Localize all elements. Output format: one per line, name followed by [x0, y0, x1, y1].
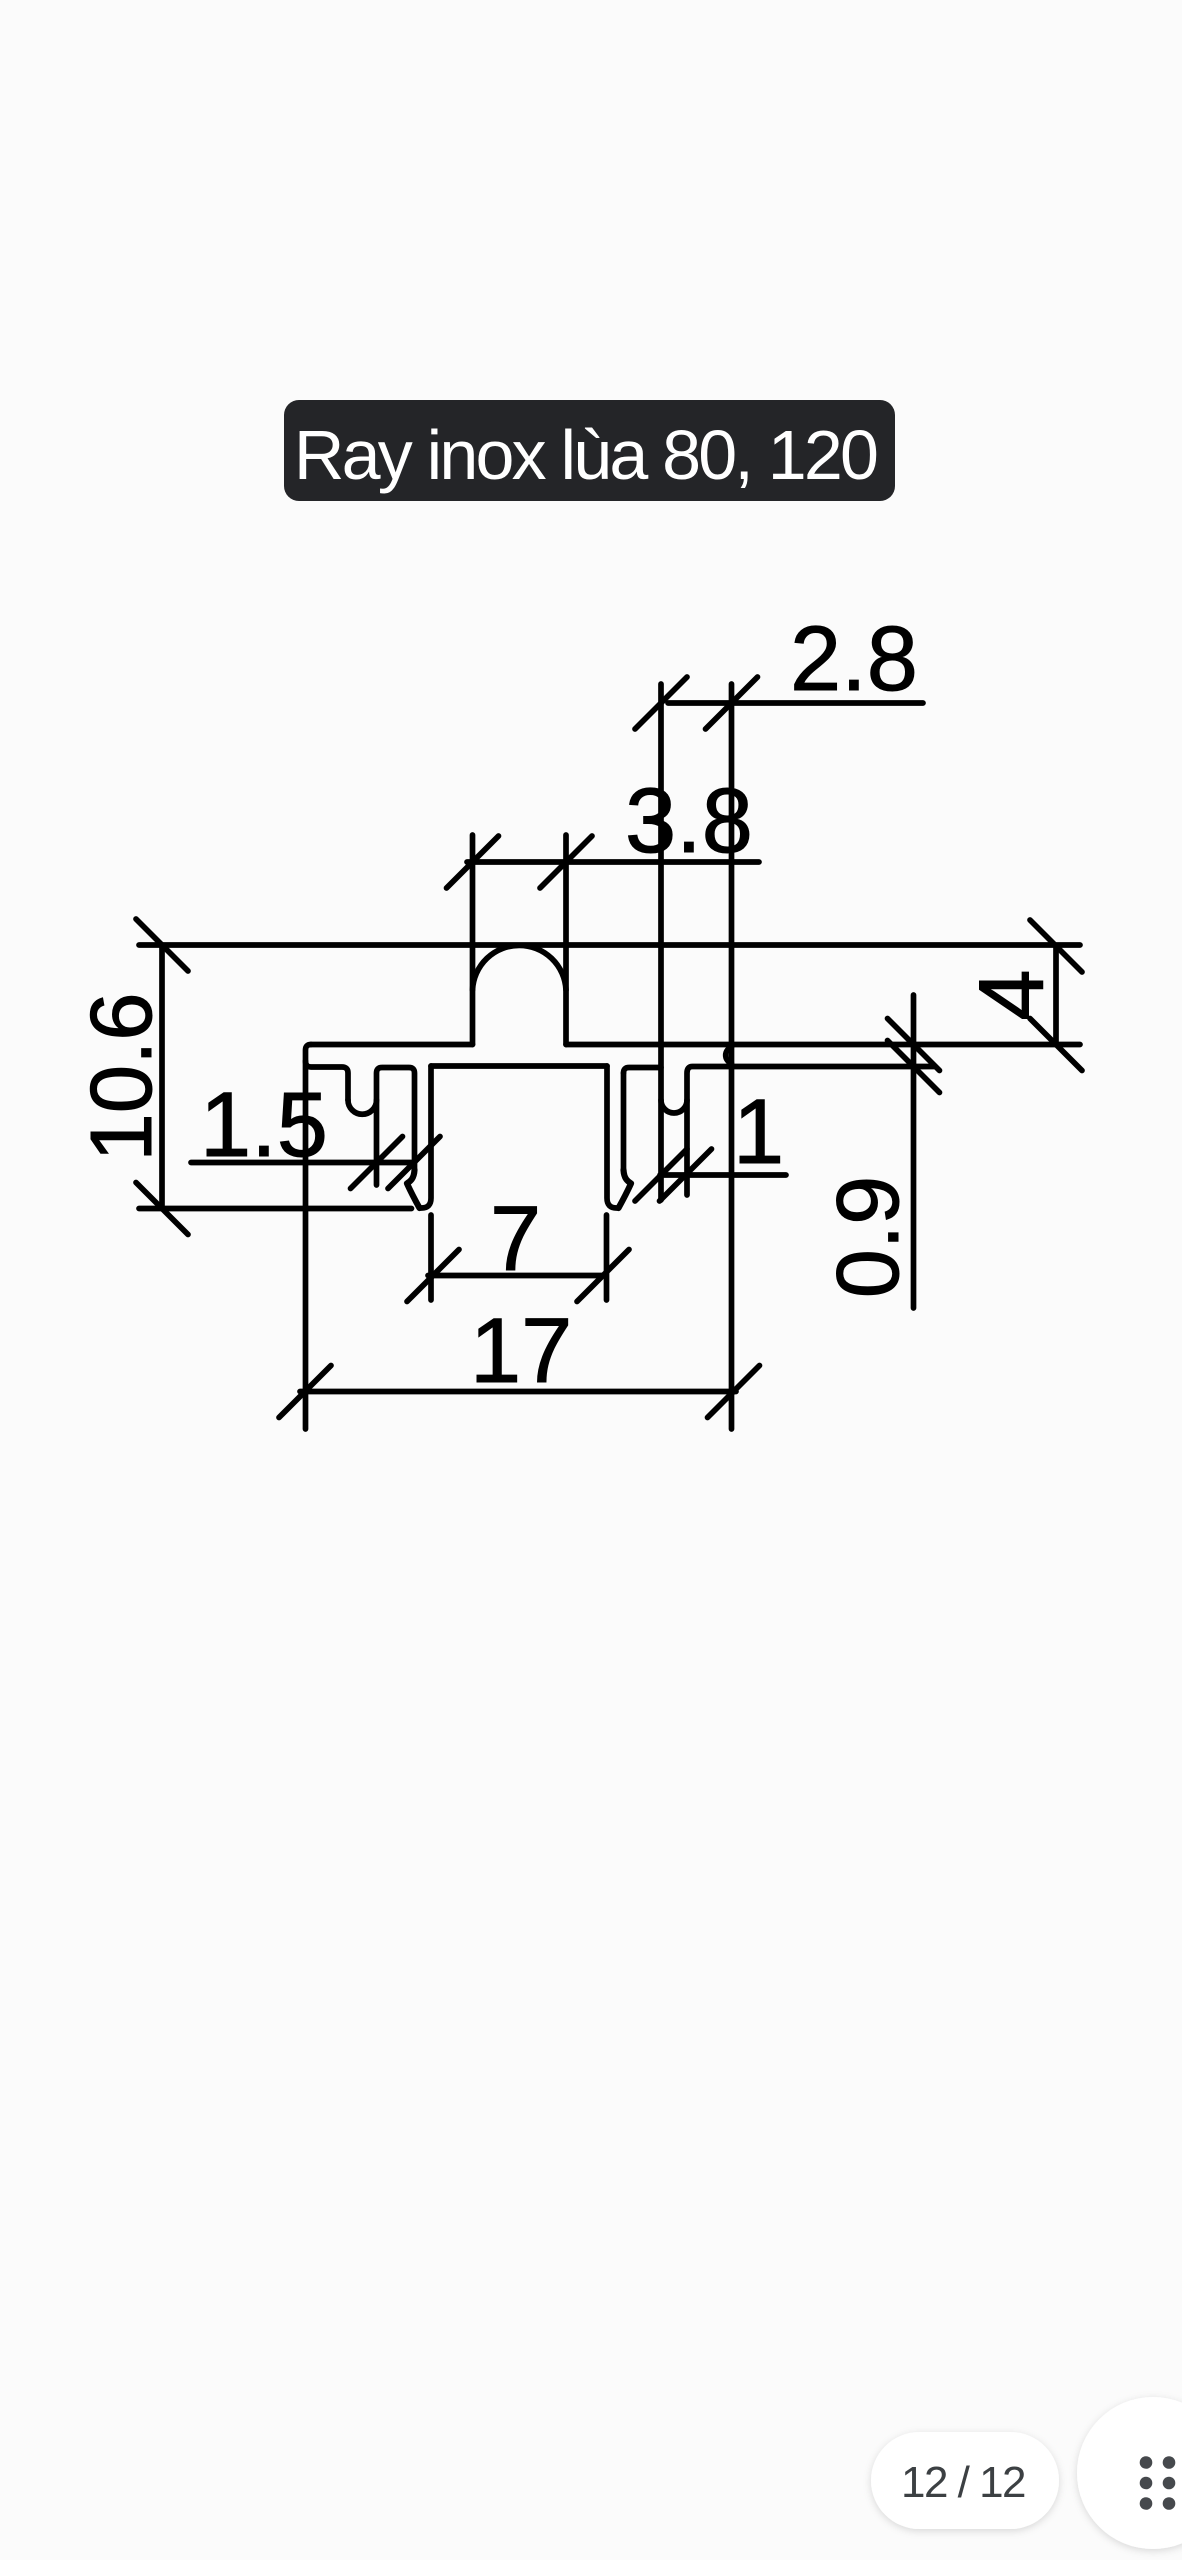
- apps circle button: [1077, 2397, 1182, 2549]
- tick 2.8 left: [635, 677, 687, 729]
- right barb hook: [619, 1170, 632, 1208]
- tick 10.6 top: [136, 919, 188, 971]
- tick 4 bottom: [1030, 1019, 1082, 1071]
- left inner vertical x=376.5: [377, 1068, 415, 1186]
- dimension 3.8 line: [467, 859, 759, 865]
- dimension 1 line: [660, 1172, 786, 1178]
- tick 1 right: [660, 1149, 712, 1201]
- tick 17 right: [708, 1366, 760, 1418]
- svg-text:Ray inox lùa 80, 120: Ray inox lùa 80, 120: [294, 416, 877, 494]
- right drip U: [661, 1100, 687, 1113]
- 10.6 lower extension line: [139, 1206, 412, 1212]
- dimension 4 line: [1053, 946, 1059, 1045]
- tick 2.8 right: [706, 677, 758, 729]
- top line of profile: [139, 942, 1080, 948]
- right horizontal barb to U: [624, 1068, 662, 1074]
- dome left edge / 3.8 extension line: [470, 835, 476, 1045]
- page counter pill: [871, 2432, 1059, 2529]
- tick 1.5 left: [351, 1137, 403, 1189]
- dimension 1.5 line: [191, 1160, 413, 1166]
- plate underside right / 0.9 and 4 extension: [566, 1042, 1080, 1048]
- dimension 0.9 line: [911, 995, 917, 1308]
- right 17 / 2.8 extension line x=731.5: [729, 684, 735, 1429]
- channel right wall with foot: [607, 1066, 617, 1208]
- tick 0.9 bottom: [888, 1041, 940, 1093]
- dimension 7 extension left: [428, 1215, 434, 1300]
- tick 3.8 right: [540, 836, 592, 888]
- tick 7 right: [577, 1250, 629, 1302]
- tick 3.8 left: [447, 836, 499, 888]
- right flange end cap curve: [726, 1047, 732, 1064]
- dome right edge / 3.8 extension line: [563, 835, 569, 1045]
- apps grid dots: [1140, 2456, 1176, 2510]
- dimension 10.6 line: [159, 945, 165, 1209]
- dimension 7 line: [428, 1273, 606, 1279]
- right U side x=687: [687, 1067, 935, 1196]
- svg-text:10.6: 10.6: [73, 992, 170, 1161]
- tick 4 top: [1030, 920, 1082, 972]
- svg-text:4: 4: [961, 969, 1063, 1020]
- left flange end cap / 17 extension line: [306, 1045, 312, 1430]
- svg-text:2.8: 2.8: [790, 608, 918, 710]
- tick 17 left: [279, 1366, 331, 1418]
- dome arc: [473, 945, 567, 990]
- tick 1 left: [635, 1149, 687, 1201]
- dimension 17 line: [300, 1389, 736, 1395]
- tick 10.6 bottom: [136, 1183, 188, 1235]
- title box: [284, 400, 895, 501]
- svg-text:1: 1: [733, 1081, 784, 1183]
- plate underside left: [311, 1042, 473, 1048]
- tick 1.5 right: [388, 1137, 440, 1189]
- svg-text:0.9: 0.9: [818, 1176, 917, 1298]
- svg-text:12 / 12: 12 / 12: [901, 2458, 1025, 2507]
- svg-text:1.5: 1.5: [200, 1074, 328, 1176]
- right barb vertical: [621, 1073, 627, 1170]
- right long vertical x=661 (2.8 / 1 extension): [658, 684, 664, 1200]
- svg-text:17: 17: [470, 1300, 572, 1402]
- dimension 7 extension right: [604, 1215, 610, 1300]
- left drip U: [348, 1100, 377, 1114]
- svg-text:7: 7: [490, 1188, 541, 1290]
- channel left wall with foot: [422, 1066, 432, 1208]
- dimension 2.8 line: [668, 700, 923, 706]
- channel top line: [431, 1063, 607, 1069]
- svg-text:3.8: 3.8: [625, 770, 753, 872]
- tick 0.9 top: [888, 1019, 940, 1071]
- left flange bottom: [306, 1061, 349, 1100]
- left barb hook: [407, 1170, 420, 1208]
- tick 7 left: [407, 1250, 459, 1302]
